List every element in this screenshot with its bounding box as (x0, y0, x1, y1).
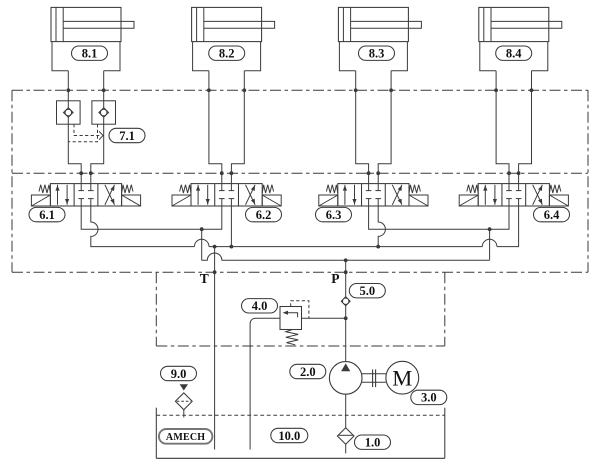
wire: T main line to tank (213, 247, 217, 450)
pilot line (dashed) from A line to right check valve (74, 124, 103, 140)
wire: P link right gallery down (489, 229, 491, 260)
measuring point 5.0 (341, 297, 350, 306)
wire: valve 6.2 T port drop (230, 206, 232, 247)
enclosure: pump unit (dash-dot border) (156, 272, 445, 346)
wire: cylinder 8.2 port B line (231, 71, 244, 184)
svg-text:3.0: 3.0 (421, 391, 437, 405)
enclosure: valve manifold block (dash-dot border) (12, 90, 588, 272)
label 9.0 (161, 366, 197, 381)
solenoid a, valve 6.3 (319, 195, 338, 206)
cylinder 8.1 (51, 7, 134, 70)
junction dots on divider, valve 6.1 ports (79, 171, 92, 175)
wire: P main line to pump (344, 260, 348, 361)
junction dots on divider, valve 6.3 ports (367, 171, 380, 175)
pilot check valve 7.1 left (57, 101, 81, 124)
label 1.0 (355, 435, 391, 450)
wire: P link left gallery down (201, 229, 203, 260)
spring a, valve 6.3 (326, 185, 337, 194)
spring b, valve 6.2 (262, 185, 273, 194)
svg-text:T: T (200, 271, 209, 286)
spring a, valve 6.4 (467, 185, 478, 194)
label 6.3 (316, 207, 352, 222)
valve 6.2 solenoid DCV body (191, 184, 262, 206)
label 6.1 (29, 207, 65, 222)
label 8.3 (359, 46, 395, 61)
svg-text:10.0: 10.0 (278, 429, 300, 443)
electric motor 3.0 (386, 361, 419, 394)
svg-text:P: P (331, 271, 339, 286)
wire: valve 6.3 T port drop with bridge (378, 206, 385, 247)
junction dots on manifold border, lines 8.2 (207, 88, 246, 92)
tank 10.0 (156, 408, 445, 459)
svg-text:8.2: 8.2 (219, 47, 235, 61)
pilot line (dashed) relief valve 4.0 (291, 301, 309, 319)
svg-text:6.1: 6.1 (39, 208, 55, 222)
svg-text:2.0: 2.0 (300, 365, 316, 379)
wire: P collector rail with bridge over T line (202, 253, 490, 262)
svg-text:5.0: 5.0 (359, 284, 375, 298)
svg-text:6.4: 6.4 (544, 208, 560, 222)
label 8.2 (209, 46, 245, 61)
svg-text:1.0: 1.0 (365, 436, 381, 450)
svg-text:M: M (392, 366, 412, 391)
spring, relief valve 4.0 (286, 330, 298, 345)
svg-text:7.1: 7.1 (119, 129, 135, 143)
breather filter 9.0 (175, 384, 192, 417)
cylinder 8.4 (479, 7, 562, 70)
wire: cylinder 8.2 port A line (209, 71, 222, 184)
valve 6.1 solenoid DCV body (50, 184, 121, 206)
svg-text:6.2: 6.2 (256, 208, 272, 222)
relief valve 4.0 (250, 307, 346, 450)
label 3.0 (411, 390, 447, 405)
AMECH logo (159, 429, 213, 444)
svg-text:9.0: 9.0 (171, 367, 187, 381)
label 6.4 (534, 207, 570, 222)
spring b, valve 6.3 (409, 185, 420, 194)
wire: pump suction (345, 394, 347, 428)
enclosure divider (dash-dot) above valve row (12, 172, 588, 174)
svg-text:6.3: 6.3 (326, 208, 342, 222)
solenoid a, valve 6.4 (459, 195, 478, 206)
cylinder 8.3 (338, 7, 421, 70)
label 5.0 (349, 284, 385, 299)
suction strainer 1.0 (337, 428, 354, 454)
valve 6.3 solenoid DCV body (338, 184, 409, 206)
node T (200, 271, 209, 286)
solenoid b, valve 6.4 (549, 195, 568, 206)
label 6.2 (246, 207, 282, 222)
spring b, valve 6.4 (549, 185, 560, 194)
spring a, valve 6.1 (39, 185, 50, 194)
wire: P gallery right (valves 6.3-6.4) (369, 206, 509, 231)
wire: cylinder 8.3 port B line (378, 71, 391, 184)
cylinder 8.2 (192, 7, 275, 70)
label 7.1 (109, 128, 145, 143)
solenoid a, valve 6.2 (172, 195, 191, 206)
svg-text:AMECH: AMECH (166, 432, 205, 443)
wire: P gallery left (valves 6.1-6.2) (81, 206, 222, 231)
junction dots on manifold border, lines 8.3 (354, 88, 393, 92)
solenoid b, valve 6.1 (122, 195, 141, 206)
pilot check valve 7.1 right (92, 101, 116, 124)
node P (331, 271, 339, 286)
solenoid a, valve 6.1 (31, 195, 50, 206)
wire: cylinder 8.4 port A line (496, 71, 509, 184)
wire: cylinder 8.3 port A line (356, 71, 369, 184)
spring a, valve 6.2 (180, 185, 191, 194)
junction dots on manifold border, lines 8.1 (66, 88, 105, 92)
pilot line (dashed) from B line to left check valve (68, 124, 97, 142)
spring b, valve 6.1 (122, 185, 133, 194)
label 10.0 (271, 428, 308, 443)
coupling shaft (362, 369, 386, 387)
svg-text:8.1: 8.1 (82, 47, 98, 61)
svg-text:4.0: 4.0 (252, 299, 268, 313)
valve 6.4 solenoid DCV body (478, 184, 549, 206)
wire: cylinder 8.1 port A line (68, 71, 81, 184)
junction dots on divider, valve 6.2 ports (220, 171, 233, 175)
wire: cylinder 8.1 port B line (91, 71, 104, 184)
label 2.0 (290, 364, 326, 379)
svg-text:8.4: 8.4 (506, 47, 522, 61)
solenoid b, valve 6.3 (409, 195, 428, 206)
label 4.0 (242, 299, 278, 314)
wire: cylinder 8.4 port B line (519, 71, 532, 184)
label 8.1 (72, 46, 108, 61)
pump 2.0 (329, 362, 362, 395)
solenoid b, valve 6.2 (262, 195, 281, 206)
svg-text:8.3: 8.3 (369, 47, 385, 61)
junction dots on manifold border, lines 8.4 (494, 88, 533, 92)
junction dots on divider, valve 6.4 ports (507, 171, 520, 175)
label 8.4 (496, 46, 532, 61)
wire: T gallery with crossover bridges (91, 206, 519, 249)
